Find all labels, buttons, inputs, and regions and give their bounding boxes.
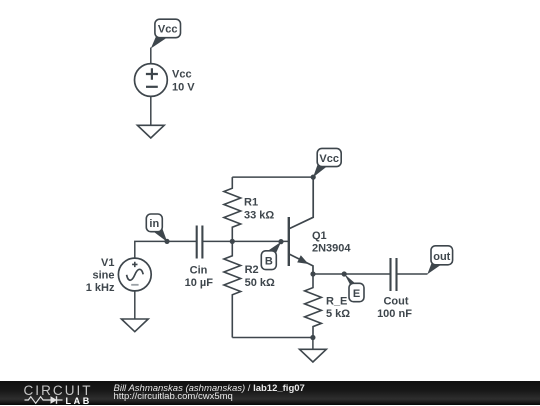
svg-text:R2: R2 [245, 264, 259, 276]
svg-text:2N3904: 2N3904 [312, 243, 351, 255]
footer text [114, 384, 305, 394]
junction bottom node [310, 335, 315, 340]
svg-text:1 kHz: 1 kHz [86, 282, 115, 294]
wire R1 top to collector node [232, 176, 313, 178]
voltage source Vcc (10 V) [135, 64, 168, 97]
wire V1 bottom to ground [134, 291, 136, 319]
svg-text:Vcc: Vcc [158, 24, 178, 36]
svg-text:out: out [433, 251, 450, 263]
junction emitter node [310, 271, 315, 276]
wire source Vcc bottom to ground [150, 96, 152, 125]
svg-text:10 V: 10 V [172, 81, 195, 93]
junction B-label anchor [278, 239, 283, 244]
value label Cout 100 nF [377, 296, 412, 320]
ground (below Vcc source) [137, 125, 164, 138]
net label out [427, 246, 452, 274]
net label Vcc (right) [313, 148, 341, 177]
svg-text:B: B [265, 255, 273, 267]
svg-text:50 kΩ: 50 kΩ [245, 277, 275, 289]
net label E [344, 274, 364, 302]
junction E-label anchor [342, 271, 347, 276]
svg-text:R1: R1 [244, 196, 258, 208]
svg-text:E: E [353, 288, 360, 300]
svg-text:Cout: Cout [383, 296, 408, 308]
resistor R2 [224, 241, 241, 337]
svg-text:Cin: Cin [190, 265, 208, 277]
svg-text:V1: V1 [101, 257, 114, 269]
junction Vcc/collector [311, 175, 316, 180]
svg-text:Vcc: Vcc [172, 69, 192, 81]
value label V1 sine 1 kHz [86, 257, 115, 294]
svg-text:Vcc: Vcc [319, 153, 339, 165]
source V1 (sine) [118, 258, 151, 291]
resistor R_E [305, 274, 322, 338]
wire V1 top to Cin (in node) [135, 241, 197, 258]
junction in-label anchor [164, 239, 169, 244]
wire Vcc label to source Vcc top [150, 48, 152, 64]
wire bottom (R2 to R_E bottom) [232, 337, 313, 339]
footer bar [0, 381, 540, 405]
svg-text:5 kΩ: 5 kΩ [326, 308, 350, 320]
svg-text:in: in [149, 218, 159, 230]
capacitor Cout [391, 258, 397, 291]
value label Cin 10 µF [185, 265, 214, 289]
wire Cout to out label [397, 273, 428, 275]
value label R1 33 kΩ [244, 196, 274, 221]
ground (below V1) [121, 319, 148, 332]
net label Vcc (top left) [151, 19, 181, 48]
wire emitter to Cout [313, 273, 391, 275]
svg-text:Q1: Q1 [312, 230, 327, 242]
ground (below R_E) [300, 349, 327, 362]
CircuitLab logo [24, 384, 93, 397]
resistor R1 [224, 177, 241, 241]
value label Q1 2N3904 [312, 230, 351, 254]
svg-text:R_E: R_E [326, 296, 347, 308]
svg-text:100 nF: 100 nF [377, 308, 412, 320]
net label B [261, 242, 281, 270]
value label R2 50 kΩ [245, 264, 275, 289]
net label in [146, 214, 167, 242]
wire Cin to base node [202, 240, 232, 242]
value label R_E 5 kΩ [326, 296, 350, 320]
capacitor Cin [197, 226, 203, 259]
svg-text:33 kΩ: 33 kΩ [244, 210, 274, 222]
junction R1/R2/base [230, 239, 235, 244]
svg-text:sine: sine [92, 269, 114, 281]
transistor Q1 (NPN 2N3904) [289, 177, 313, 274]
svg-text:10 µF: 10 µF [185, 277, 214, 289]
wire base [232, 240, 288, 242]
wire bottom node to ground [312, 338, 314, 350]
